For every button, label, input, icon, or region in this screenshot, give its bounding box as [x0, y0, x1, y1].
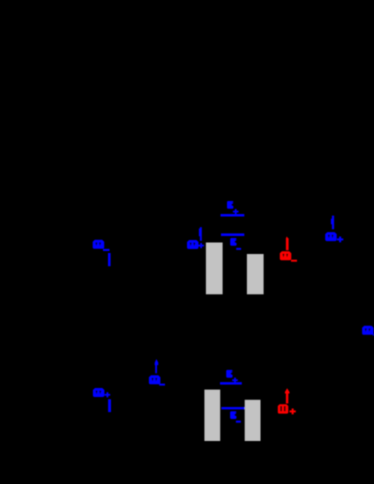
energy level line epsilon_plus D1 [221, 214, 245, 217]
label omega-minus G (red) [280, 251, 297, 262]
arrow up C (blue) [331, 216, 334, 230]
energy level line epsilon_plus D2 [220, 382, 242, 385]
arrow bar G (red) [286, 237, 289, 251]
electrode bar left D1 (gray) [206, 243, 223, 295]
label omega F (blue, clipped at edge) [362, 326, 374, 336]
arrow down E (blue) [108, 399, 111, 412]
label omega-minus D (blue) [149, 375, 165, 385]
label omega-plus C (blue) [325, 232, 343, 242]
electrode bar right D2 (gray) [245, 400, 261, 441]
arrow up B (blue) [199, 227, 202, 241]
label epsilon-minus D2 (blue) [230, 411, 241, 423]
label omega-minus A (blue) [93, 240, 110, 251]
arrow up D (blue) [155, 359, 159, 373]
arrow up H (red) [285, 388, 290, 403]
label omega-plus B (blue) [187, 240, 204, 249]
label epsilon-plus D1 (blue) [227, 201, 239, 214]
energy level line epsilon_minus D2 [222, 407, 245, 409]
label omega-plus H (red) [278, 404, 296, 414]
electrode bar left D2 (gray) [204, 390, 220, 441]
label epsilon-minus D1 (blue) [230, 238, 241, 250]
electrode bar right D1 (gray) [247, 254, 264, 294]
label epsilon-plus D2 (blue) [226, 370, 238, 383]
label omega-plus E (blue) [93, 388, 110, 397]
energy level line epsilon_minus D1 [221, 233, 244, 236]
arrow down A (blue) [108, 253, 111, 266]
